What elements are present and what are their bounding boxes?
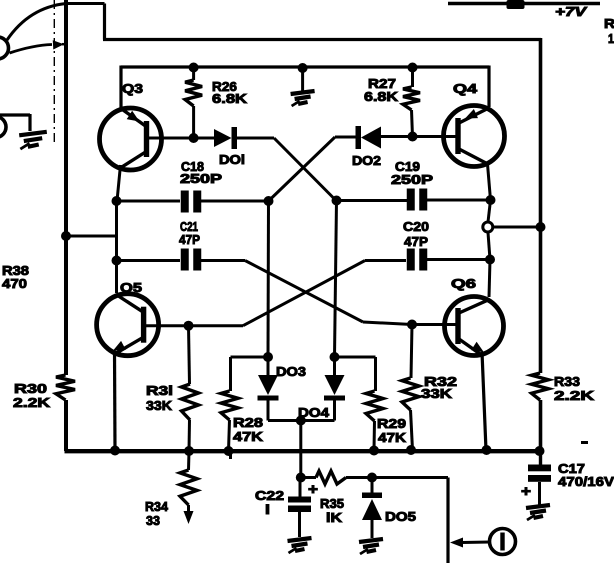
svg-text:R3l: R3l: [146, 383, 173, 398]
wire (Q6 emitter to rail): [482, 352, 486, 450]
wire (D02 to cross diagonal): [335, 136, 356, 139]
svg-text:lK: lK: [326, 510, 343, 525]
capacitor C17: [528, 451, 551, 505]
node (R31/R34): [184, 446, 194, 456]
wire (left inner vertical): [115, 199, 118, 293]
node (D04 top): [330, 352, 340, 362]
fold dash-dot line: [53, 0, 55, 145]
wire (C20 to right vertical): [426, 258, 491, 261]
svg-text:R: R: [604, 16, 614, 31]
label C17 470/16V: [558, 461, 614, 489]
wire (Q4 collector down): [488, 164, 491, 200]
resistor R28: [221, 357, 268, 459]
wire (C18 node down to D03): [267, 201, 271, 357]
scan speck: [581, 441, 588, 444]
label DO3: [276, 364, 306, 379]
node (D05 top): [367, 473, 377, 483]
label R26 6.8K: [212, 79, 248, 106]
label R32 33K: [421, 374, 457, 401]
svg-text:R28: R28: [233, 415, 263, 430]
label C18 250P: [180, 159, 222, 186]
wire (Q5-base cross diagonal to C20): [243, 261, 406, 326]
label R (clipped at right edge): [604, 16, 614, 46]
ground (top middle): [291, 68, 315, 106]
svg-text:470/16V: 470/16V: [558, 474, 614, 489]
node (C19 left / D04 branch): [332, 196, 342, 206]
label R28 47K: [233, 415, 264, 444]
wire (top outer wire): [103, 4, 541, 40]
svg-text:Q6: Q6: [451, 276, 476, 291]
node (left stub): [61, 231, 117, 241]
svg-text:DO2: DO2: [352, 153, 381, 168]
wire (arc from connector to top rail): [7, 4, 105, 41]
label C21 47P: [179, 219, 200, 247]
svg-text:R34: R34: [145, 499, 169, 514]
svg-text:47P: 47P: [179, 232, 200, 247]
+7V supply rail (cut off at top): [448, 0, 600, 9]
svg-text:C22: C22: [255, 488, 284, 503]
wire (cathode bus down through rail): [299, 421, 302, 478]
svg-text:Q5: Q5: [120, 280, 142, 295]
label R38 470: [2, 263, 29, 291]
resistor R31: [182, 326, 199, 451]
capacitor C22: [288, 478, 311, 538]
node (Q4 base / R27 / D02): [408, 132, 418, 142]
wire (cross diagonal Q4-base to C18): [269, 137, 336, 201]
svg-text:R33: R33: [554, 374, 580, 389]
wire (C18 to node): [200, 200, 269, 203]
wire (Q5 base row): [146, 324, 243, 327]
resistor R33: [532, 373, 549, 452]
wire (D01 to cross diagonal): [237, 137, 274, 140]
wire (to Q6 base): [412, 323, 459, 326]
capacitor C19: [337, 189, 428, 211]
resistor R34: [180, 451, 197, 524]
node (right rail / C17): [535, 446, 545, 456]
label Q6: [451, 276, 476, 291]
transistor Q4: [444, 106, 505, 167]
label C20 47P: [403, 219, 429, 249]
svg-text:R35: R35: [320, 496, 344, 511]
label R33 2.2K: [554, 374, 595, 403]
wire (cross diagonal Q3-base to C19): [274, 138, 337, 201]
label DO5: [385, 509, 416, 524]
diode D03: [258, 357, 279, 421]
node (Q3 base / R26 / D01): [189, 133, 199, 143]
svg-text:47P: 47P: [404, 234, 428, 249]
wire (arc from connector, arrow to left rail): [10, 40, 68, 53]
label R34 33: [145, 499, 169, 528]
label +7V: [555, 4, 588, 19]
svg-text:6.8K: 6.8K: [212, 91, 248, 106]
svg-text:Q4: Q4: [453, 81, 478, 96]
node (D03 top): [263, 352, 273, 362]
wire (Q4 base row): [381, 135, 459, 138]
node (top rail ground stub): [298, 63, 308, 73]
connector circle (off-page, top left): [0, 37, 9, 59]
svg-text:470: 470: [2, 276, 27, 291]
wire (Q5 emitter to rail): [113, 351, 117, 450]
wire (box left edge to Q3): [119, 66, 122, 111]
svg-text:47K: 47K: [378, 430, 407, 445]
label R35 1K: [320, 496, 344, 525]
node (C21 left): [112, 256, 122, 266]
polarity + (C17): [521, 483, 531, 500]
node (R32): [406, 445, 416, 455]
wire (right outer rail): [539, 38, 543, 373]
node (R26 top): [189, 63, 199, 73]
svg-text:DOl: DOl: [219, 152, 245, 167]
svg-text:47K: 47K: [233, 429, 264, 444]
wire (C21 cross diagonal to Q6 base): [200, 261, 413, 325]
wire (bottom emitter rail): [65, 449, 540, 453]
svg-text:C20: C20: [403, 219, 429, 234]
diode D02: [356, 126, 382, 149]
connector I (circled, bottom right): [450, 529, 516, 555]
resistor R26: [185, 67, 202, 138]
label R29 47K: [377, 416, 407, 445]
label R27 6.8K: [364, 76, 399, 104]
diode D05: [362, 478, 382, 539]
wire (C19 node down to D04): [335, 201, 337, 358]
transistor Q6: [445, 297, 504, 356]
svg-text:DO5: DO5: [385, 509, 416, 524]
node (Q6 base / R32): [407, 320, 417, 330]
svg-text:+: +: [521, 483, 531, 500]
node (Q5 base / R31): [184, 321, 194, 331]
svg-text:+: +: [308, 481, 318, 498]
connector node (open circle): [483, 222, 493, 232]
wire (open circle to right rail): [493, 226, 541, 229]
node (R28): [224, 446, 234, 456]
svg-text:33K: 33K: [421, 386, 453, 401]
resistor R29: [335, 357, 384, 450]
node (right rail tap): [536, 222, 546, 232]
svg-text:250P: 250P: [180, 171, 222, 186]
resistor R35: [301, 471, 372, 484]
svg-text:R30: R30: [14, 381, 47, 396]
svg-text:2.2K: 2.2K: [554, 388, 595, 403]
capacitor C21: [117, 249, 202, 271]
label DO2: [352, 153, 381, 168]
label C22 1: [255, 488, 284, 517]
wire (C19 to Q4 collector): [426, 199, 491, 202]
label R30 2.2K: [13, 381, 51, 410]
transistor Q3: [100, 108, 162, 170]
capacitor C20: [407, 249, 428, 271]
capacitor C18: [117, 191, 201, 213]
node (R27 top): [408, 63, 418, 73]
wire (down to Q6): [489, 260, 490, 298]
svg-text:R29: R29: [377, 416, 406, 431]
svg-text:DO3: DO3: [276, 364, 306, 379]
connector circle (left edge, partial): [0, 117, 6, 138]
node (R29): [369, 446, 379, 456]
label C19 250P: [391, 159, 433, 187]
resistor R27: [403, 67, 420, 137]
transistor Q5: [97, 294, 159, 356]
node (C19 right): [486, 195, 496, 205]
svg-text:+7V: +7V: [555, 4, 588, 19]
wire (inner box top rail): [121, 65, 489, 68]
node (Q6 emitter): [482, 445, 492, 455]
diode D01: [214, 127, 237, 149]
svg-text:33K: 33K: [146, 398, 173, 413]
resistor R32: [402, 325, 419, 451]
wire (Q4 emitter chain down): [488, 200, 491, 222]
ground (below C17): [526, 505, 550, 520]
node (C22 / R35 row left): [296, 473, 306, 483]
ground (top left stub): [0, 114, 47, 149]
svg-text:Q3: Q3: [122, 81, 143, 96]
svg-text:1: 1: [608, 31, 614, 46]
resistor R30: [56, 375, 75, 451]
wire (box right edge to Q4): [487, 66, 490, 108]
node (Q5 emitter): [110, 446, 120, 456]
wire (left supply rail): [64, 0, 68, 375]
svg-text:250P: 250P: [391, 172, 433, 187]
svg-text:2.2K: 2.2K: [13, 395, 51, 410]
node (C18 right / D03 branch): [264, 196, 274, 206]
wire (Q3 collector down): [117, 165, 121, 201]
label DO4: [298, 405, 330, 420]
label DO1: [219, 152, 245, 167]
node (cathode bus center): [296, 416, 306, 426]
svg-text:l: l: [265, 502, 270, 517]
node (C18 left / Q3 collector): [112, 196, 122, 206]
label Q3: [122, 81, 143, 96]
label Q4: [453, 81, 478, 96]
diode D04: [324, 357, 345, 421]
wire (Q3 base row): [149, 137, 214, 140]
wire (R35 row to bottom right): [372, 478, 448, 563]
ground (below C22): [288, 538, 312, 553]
label R31 33K: [146, 383, 173, 413]
wire (down to C20 node): [488, 233, 490, 260]
polarity + (C22): [308, 481, 318, 498]
ground (below D05): [359, 539, 383, 554]
svg-text:33: 33: [146, 513, 160, 528]
wire (D03-D04 cathode bus): [268, 419, 335, 422]
label Q5: [120, 280, 142, 295]
node (C20 right): [485, 255, 495, 265]
svg-text:6.8K: 6.8K: [364, 89, 399, 104]
